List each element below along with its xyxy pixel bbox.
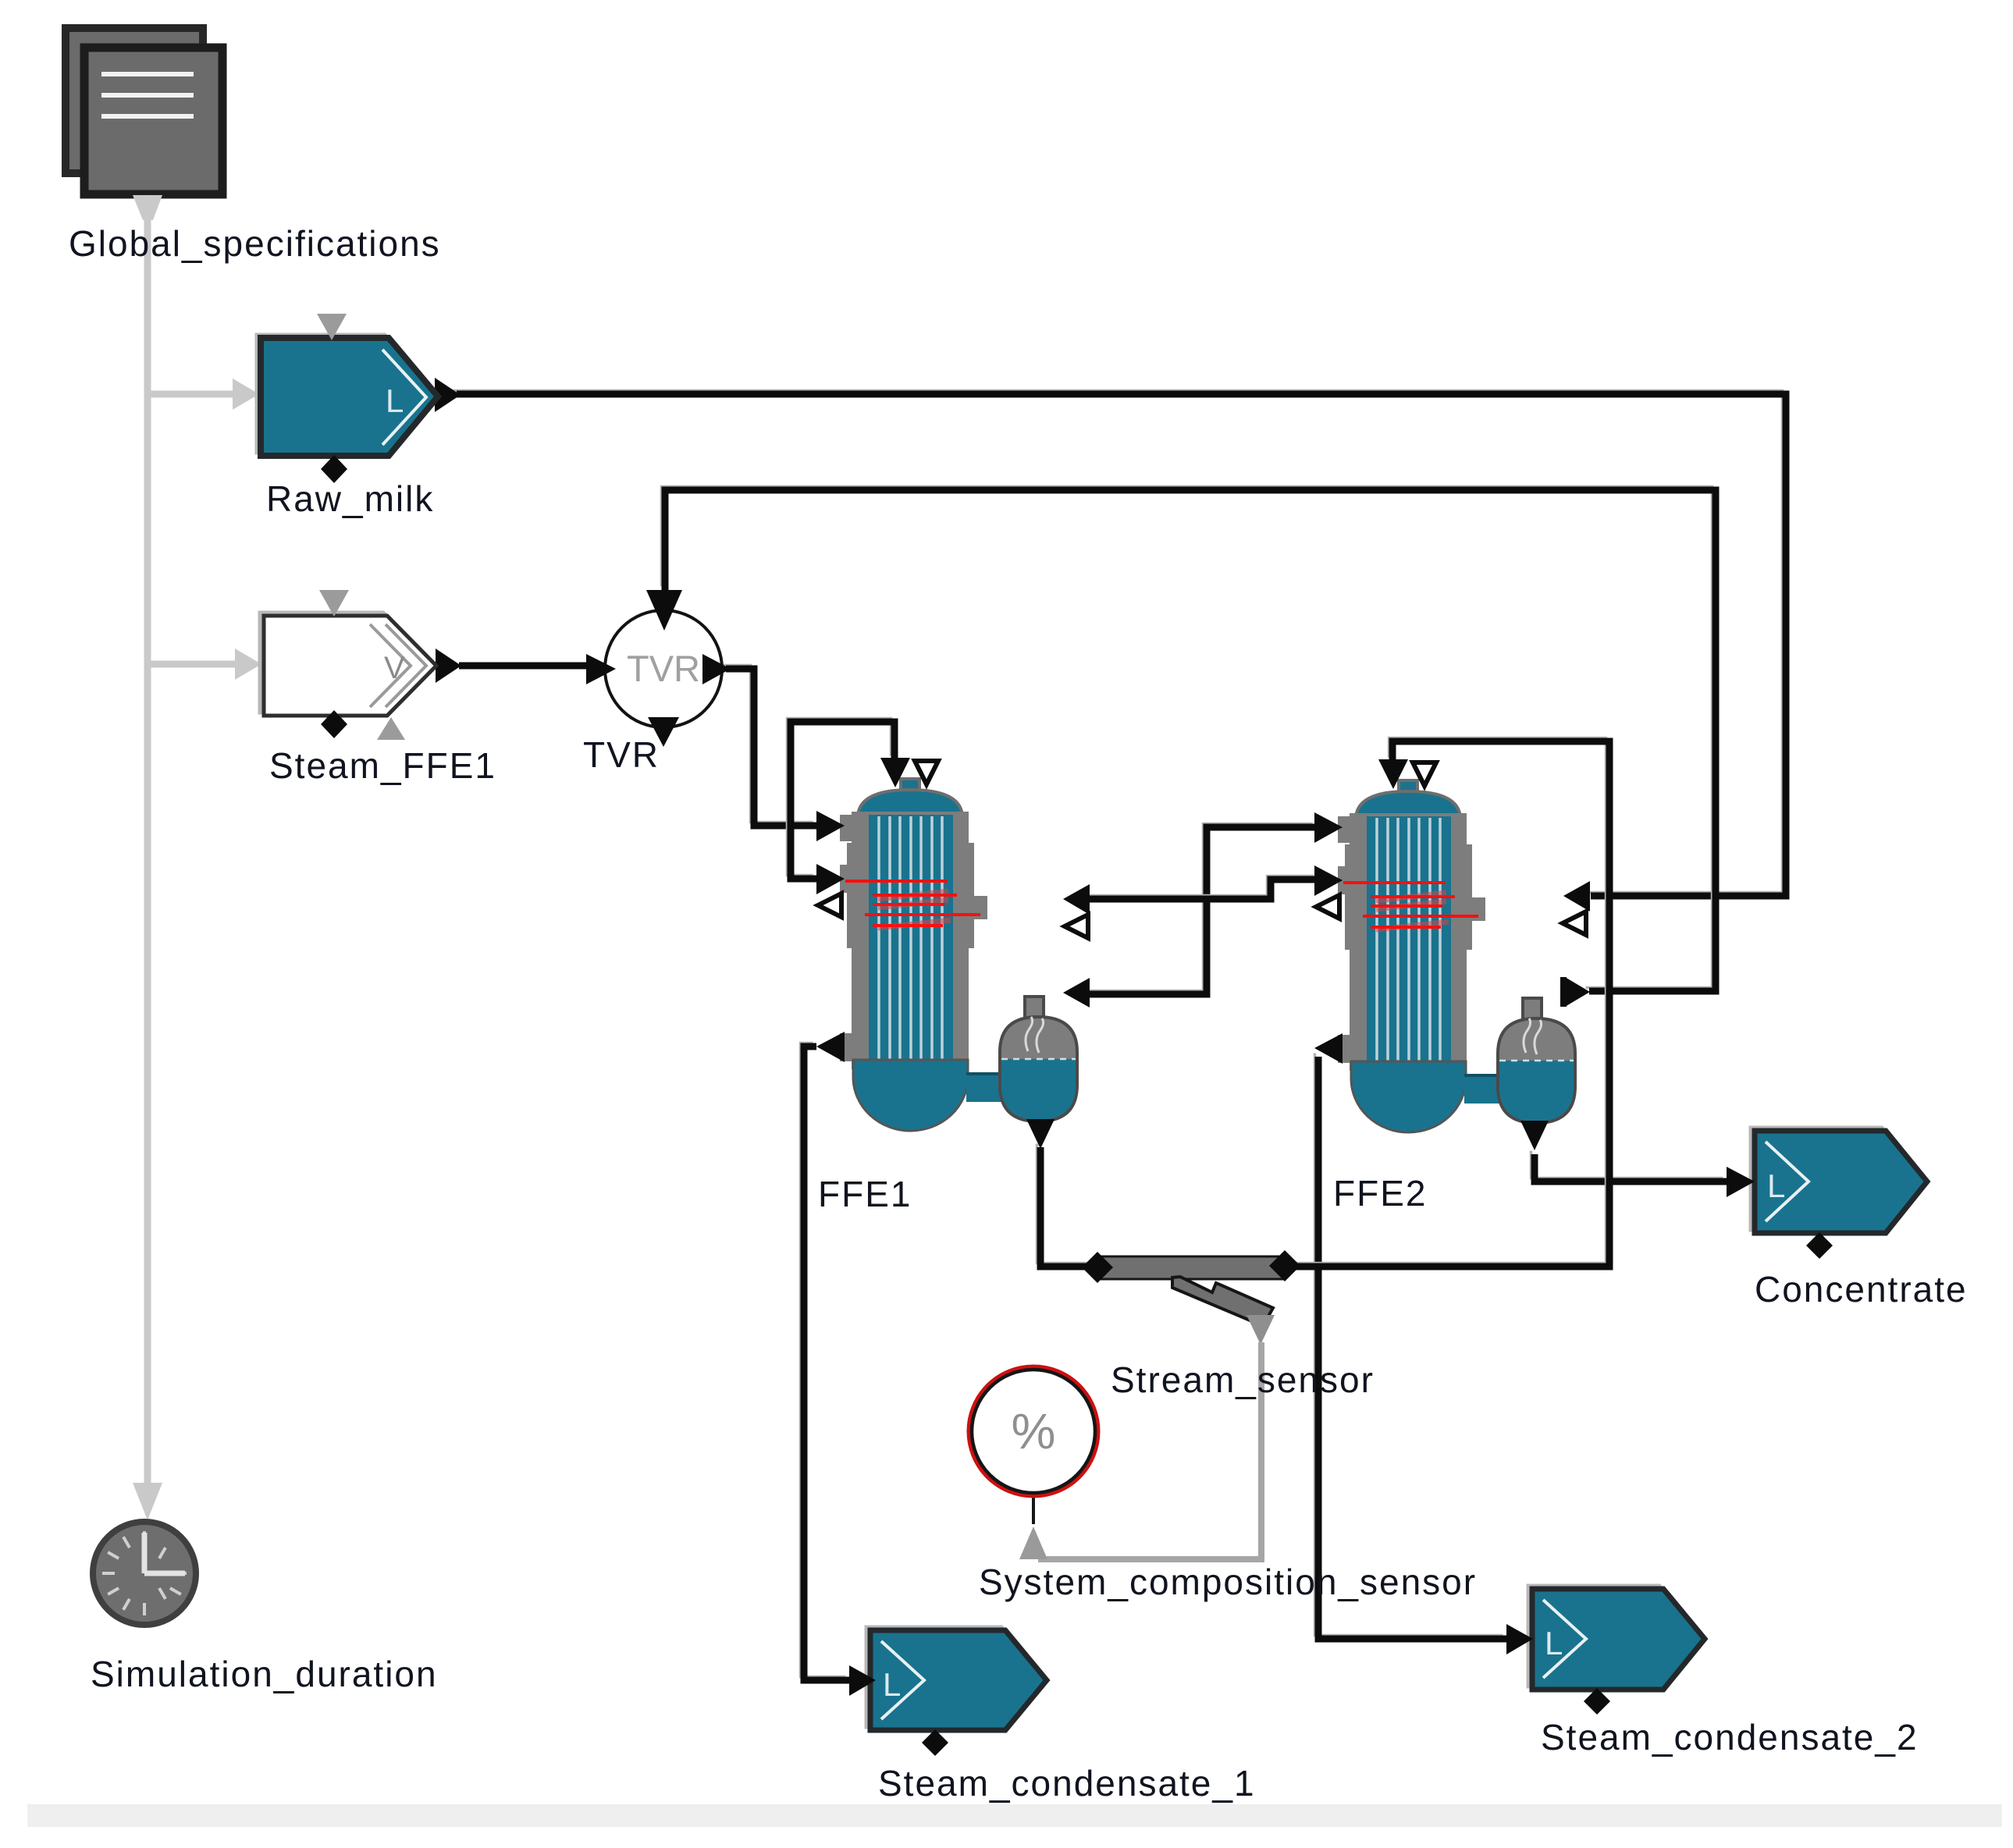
svg-text:Concentrate: Concentrate	[1755, 1269, 1968, 1310]
FFE2 top open port marker	[1413, 762, 1436, 786]
FFE2 left open port marker	[1316, 895, 1339, 919]
wire TVR discharge to FFE1 left port 1	[723, 666, 817, 826]
bottom scrollbar strip	[27, 1804, 2002, 1827]
FFE1 left port 2 arrow	[816, 864, 845, 894]
stream sensor Stream_sensor	[1082, 1250, 1300, 1345]
evaporator FFE1	[816, 758, 1090, 1149]
FFE2 top feed port	[1378, 759, 1408, 789]
FFE1 separator bottom port arrow	[1026, 1119, 1055, 1149]
wire gray branch to Raw_milk	[148, 378, 259, 410]
svg-text:FFE2: FFE2	[1333, 1173, 1427, 1214]
FFE2 right open port marker	[1563, 912, 1586, 935]
FFE2 separator bottom port arrow	[1520, 1121, 1549, 1150]
wire FFE1 separator liquid down to Stream_sensor	[1037, 1144, 1098, 1267]
wire Raw_milk to FFE2 right feed port	[435, 378, 1786, 896]
wire FFE2 separator vapor to TVR top suction	[662, 487, 1716, 992]
wire FFE2 separator liquid to Concentrate	[1531, 1151, 1727, 1182]
wire Stream_sensor to FFE2 top feed port	[1285, 738, 1610, 1267]
FFE1 left open port marker	[818, 894, 841, 917]
FFE2 right feed port arrow	[1563, 881, 1590, 912]
svg-text:L: L	[883, 1666, 901, 1703]
svg-text:L: L	[1545, 1625, 1563, 1661]
svg-text:Raw_milk: Raw_milk	[266, 478, 434, 519]
clock icon Simulation_duration	[93, 1522, 196, 1625]
FFE1 separator vapor port arrow	[1063, 978, 1090, 1008]
FFE1 top feed port	[880, 758, 910, 787]
outlet stream Steam_condensate_2	[1506, 1586, 1705, 1715]
svg-text:System_composition_sensor: System_composition_sensor	[979, 1562, 1477, 1602]
thermocompressor TVR	[586, 590, 731, 747]
evaporator FFE2	[1314, 759, 1590, 1150]
svg-text:V: V	[384, 651, 405, 685]
wire FFE1 top port loop to FFE1 left port 2	[788, 719, 895, 880]
wire gray from Global_specifications down to Simulation_duration	[133, 194, 162, 1520]
svg-text:FFE1: FFE1	[818, 1174, 912, 1214]
wire FFE2 condensate outlet to Steam_condensate_2	[1315, 1054, 1507, 1640]
svg-text:TVR: TVR	[627, 648, 700, 689]
outlet stream Concentrate	[1727, 1128, 1927, 1259]
svg-text:Steam_FFE1: Steam_FFE1	[269, 745, 496, 786]
wire FFE1 separator vapor to FFE2 left port 1	[1085, 824, 1317, 995]
wire gray branch to Steam_FFE1	[148, 649, 261, 680]
FFE2 left bottom condensate port arrow	[1314, 1033, 1343, 1064]
FFE1 top open port marker	[915, 761, 938, 784]
svg-text:Global_specifications: Global_specifications	[69, 223, 441, 264]
svg-text:Stream_sensor: Stream_sensor	[1111, 1359, 1375, 1400]
svg-text:L: L	[1767, 1167, 1785, 1204]
wire FFE1 condensate outlet to Steam_condensate_1	[801, 1043, 850, 1681]
gray signal wire Stream_sensor to System_composition_sensor	[1019, 1342, 1261, 1559]
FFE1 left bottom condensate port arrow	[816, 1032, 845, 1062]
document icon Global_specifications	[66, 28, 222, 220]
svg-text:TVR: TVR	[583, 734, 660, 775]
FFE2 left port 2 arrow	[1314, 865, 1343, 896]
composition sensor System_composition_sensor	[969, 1366, 1098, 1496]
FFE1 right open port marker	[1065, 915, 1088, 938]
svg-text:L: L	[386, 382, 404, 419]
svg-text:Simulation_duration: Simulation_duration	[91, 1654, 438, 1694]
svg-text:Steam_condensate_2: Steam_condensate_2	[1541, 1717, 1919, 1757]
source stream Raw_milk	[257, 314, 438, 483]
wire Steam_FFE1 to TVR left inlet	[436, 649, 588, 683]
svg-text:%: %	[1012, 1403, 1056, 1459]
FFE1 right vapor port arrow	[1063, 884, 1090, 915]
FFE2 left port 1 arrow	[1314, 812, 1343, 843]
outlet stream Steam_condensate_1	[849, 1627, 1047, 1756]
FFE2 separator vapor out arrow	[1565, 977, 1590, 1007]
FFE1 left port 1 arrow	[816, 811, 845, 841]
svg-text:Steam_condensate_1: Steam_condensate_1	[878, 1763, 1256, 1804]
source stream Steam_FFE1	[260, 590, 436, 740]
wire FFE1 right vapor port to FFE2 left port 2	[1085, 876, 1318, 900]
